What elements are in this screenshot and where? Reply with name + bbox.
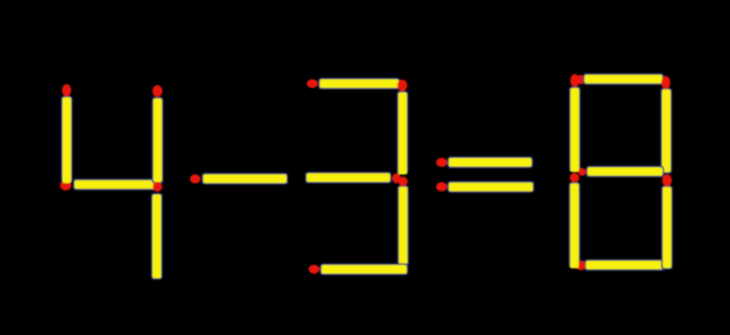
digit 4: lower-right vertical matchstick, head at top (151, 182, 163, 280)
digit 8: middle horizontal matchstick, head at left (578, 166, 664, 178)
digit 3: bottom horizontal matchstick, head at left (309, 263, 409, 275)
digit 8: bottom horizontal matchstick head (visible half) (578, 261, 585, 270)
digit 8: bottom-right vertical matchstick, head at top (661, 174, 673, 269)
digit 3: top horizontal matchstick, head at left (307, 78, 400, 90)
digit 8: top-right vertical matchstick, head at top (660, 76, 672, 174)
digit 3: top-right vertical matchstick, head at top (397, 80, 409, 175)
digit 3: middle horizontal matchstick, head at right (305, 172, 401, 184)
digit 4: horizontal matchstick, head at left (60, 179, 157, 191)
digit 8: top-left vertical matchstick, head at top (569, 74, 581, 172)
digit 4: upper-right vertical matchstick, head at top (152, 85, 164, 184)
digit 8: bottom-left vertical matchstick, head at top (569, 173, 581, 268)
equals sign: top matchstick, head at left (436, 156, 533, 168)
digit 8: top horizontal matchstick, head at left (576, 73, 664, 85)
minus sign matchstick, head at left (190, 173, 288, 185)
digit 8: bottom horizontal matchstick, head at left (576, 259, 665, 271)
digit 4: left vertical matchstick, head at top (61, 84, 73, 183)
digit 3: bottom-right vertical matchstick, head at top (397, 177, 409, 266)
equals sign: bottom matchstick, head at left (436, 181, 534, 193)
